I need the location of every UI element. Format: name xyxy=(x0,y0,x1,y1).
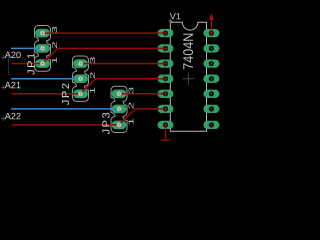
connector JP3 pad 3 xyxy=(112,90,127,99)
IC V1 pin 8 pad xyxy=(203,121,219,129)
label A20 xyxy=(1,52,21,60)
IC V1 pin 1 hole xyxy=(163,30,168,35)
IC V1 pin 6 hole xyxy=(163,106,168,111)
faint bus line xyxy=(8,57,10,75)
IC V1 pin 3 hole xyxy=(163,61,168,66)
wire arrow up from V1 pin14 xyxy=(209,13,214,33)
wire stub down from V1 pin7 xyxy=(161,125,170,140)
IC V1 pin 5 pad xyxy=(158,90,174,98)
pin number 2 xyxy=(129,103,134,109)
IC V1 pin 8 hole xyxy=(209,122,214,127)
wire JP1 pad3 to V1 pin1 xyxy=(43,32,166,34)
IC V1 body outline with notch xyxy=(170,22,206,131)
IC V1 pin 9 hole xyxy=(209,106,214,111)
connector JP3 pad 2 xyxy=(112,105,127,114)
IC V1 pin 10 pad xyxy=(203,90,219,98)
wire net A20 blue to JP1 pad2 xyxy=(11,47,43,49)
IC V1 pin 4 hole xyxy=(163,76,168,81)
connector JP1 pad 1 hole xyxy=(40,61,45,66)
pin number 3 xyxy=(129,87,134,93)
pin number 1 xyxy=(129,119,134,125)
wire red A20 stub to JP1 pad1 xyxy=(12,63,43,65)
connector JP1 outline xyxy=(35,26,51,72)
IC V1 pin 9 pad xyxy=(203,105,219,113)
connector JP2 pad 3 hole xyxy=(78,61,83,66)
name JP1 xyxy=(27,53,34,74)
label A21 xyxy=(1,82,21,90)
connector JP3 pad 1 xyxy=(112,121,127,130)
IC V1 pin 1 pad xyxy=(158,29,174,37)
IC V1 pin 7 pad xyxy=(158,121,174,129)
connector JP2 pad 2 xyxy=(73,74,88,83)
connector JP3 pad 3 hole xyxy=(117,91,122,96)
name V1 xyxy=(168,13,180,23)
wire net A21 blue to JP2 pad2 xyxy=(11,78,81,80)
IC V1 pin 5 hole xyxy=(163,91,168,96)
wire red A22 stub to JP3 pad1 xyxy=(12,124,119,126)
connector JP2 pad 1 hole xyxy=(78,91,83,96)
IC V1 pin 2 hole xyxy=(163,46,168,51)
pin number 1 xyxy=(52,57,57,63)
pin number 3 xyxy=(90,57,95,63)
pin number 3 xyxy=(52,27,57,33)
IC V1 pin 4 pad xyxy=(158,75,174,83)
IC V1 pin 13 hole xyxy=(209,46,214,51)
name JP2 xyxy=(62,84,69,105)
connector JP1 pad 2 hole xyxy=(40,46,45,51)
wire JP2 pad3 to V1 pin3 xyxy=(81,63,166,65)
IC V1 pin 7 hole xyxy=(163,122,168,127)
connector JP3 pad 1 hole xyxy=(117,123,122,128)
connector JP2 pad 1 xyxy=(73,90,88,99)
connector JP3 outline xyxy=(111,86,127,132)
wire JP3 pad1 to V1 pin6 xyxy=(119,109,166,125)
pin number 2 xyxy=(52,42,57,48)
value 7404N xyxy=(182,34,194,85)
connector JP1 pad 3 xyxy=(35,29,50,38)
IC V1 pin 6 pad xyxy=(158,105,174,113)
connector JP1 pad 3 hole xyxy=(40,31,45,36)
wire JP2 pad1 to V1 pin4 xyxy=(81,79,166,94)
pin number 1 xyxy=(90,88,95,94)
wire red A21 stub to JP2 pad1 xyxy=(12,93,81,95)
IC V1 pin 12 hole xyxy=(209,61,214,66)
IC V1 pin 12 pad xyxy=(203,59,219,67)
pin number 2 xyxy=(90,72,95,78)
IC V1 pin 10 hole xyxy=(209,91,214,96)
connector JP1 pad 1 xyxy=(35,59,50,68)
IC V1 pin 11 hole xyxy=(209,76,214,81)
connector JP1 pad 2 xyxy=(35,44,50,53)
IC V1 pin 14 pad xyxy=(203,29,219,37)
IC V1 pin 3 pad xyxy=(158,59,174,67)
connector JP3 pad 2 hole xyxy=(117,107,122,112)
connector JP2 pad 2 hole xyxy=(78,76,83,81)
connector JP2 pad 3 xyxy=(73,59,88,68)
connector JP2 outline xyxy=(73,56,89,101)
name JP3 xyxy=(102,113,109,135)
IC V1 pin 13 pad xyxy=(203,44,219,52)
wire JP1 pad1 to V1 pin2 xyxy=(43,48,166,63)
label A22 xyxy=(1,113,21,121)
wire net A22 blue to JP3 pad2 xyxy=(11,108,119,110)
IC V1 pin 2 pad xyxy=(158,44,174,52)
IC V1 pin 14 hole xyxy=(209,30,214,35)
IC V1 pin 11 pad xyxy=(203,75,219,83)
wire JP3 pad3 to V1 pin5 xyxy=(119,93,166,95)
